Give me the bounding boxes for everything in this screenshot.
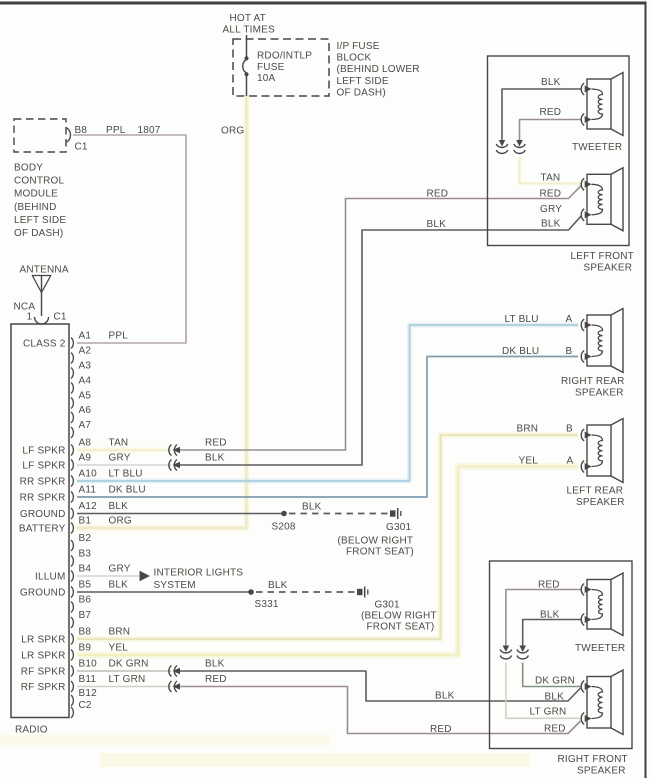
radio pin A9 bracket: [71, 460, 73, 471]
wire GRY (B4 to interior lights system): [77, 575, 139, 577]
svg-text:B: B: [566, 346, 573, 357]
left front speaker enclosure box: [488, 56, 630, 246]
svg-text:BLK: BLK: [302, 502, 322, 513]
svg-text:B6: B6: [79, 595, 92, 606]
radio pin C2 bracket: [71, 707, 73, 718]
svg-text:A11: A11: [79, 485, 97, 496]
svg-text:LEFT SIDE: LEFT SIDE: [337, 76, 389, 87]
wire RED (connector to RF woofer -): [176, 687, 581, 734]
splice S208: [281, 511, 287, 517]
radio pin B7 bracket: [71, 617, 73, 628]
wire BLK (LF tweeter + lead): [502, 89, 581, 141]
svg-text:A4: A4: [79, 376, 92, 387]
svg-text:GROUND: GROUND: [20, 588, 66, 599]
svg-text:LF SPKR: LF SPKR: [22, 446, 65, 457]
svg-text:RR SPKR: RR SPKR: [20, 493, 66, 504]
svg-text:B11: B11: [79, 674, 97, 685]
radio pin A5 bracket: [71, 398, 73, 409]
svg-text:RED: RED: [430, 724, 452, 735]
svg-text:BODY: BODY: [14, 163, 43, 174]
wire ORG (fuse to radio B1): [77, 96, 247, 528]
svg-text:RED: RED: [544, 724, 566, 735]
svg-text:SPEAKER: SPEAKER: [584, 263, 633, 274]
radio pin B11 bracket: [71, 681, 73, 692]
svg-text:RF SPKR: RF SPKR: [21, 682, 66, 693]
svg-text:BLK: BLK: [268, 580, 288, 591]
wire DK BLU (A11 to right rear speaker B): [77, 357, 578, 498]
wire DK GRN stub (B10 to connector): [77, 670, 171, 672]
wire BLK (A12 to splice S208): [77, 513, 284, 515]
inline connector at A8: [169, 445, 172, 456]
right front speaker enclosure box: [490, 561, 633, 749]
svg-text:BATTERY: BATTERY: [19, 524, 66, 535]
svg-text:B3: B3: [79, 549, 92, 560]
wire LT GRN (connector to RF woofer -): [506, 663, 581, 719]
speaker RF tweeter: [581, 573, 623, 636]
wire BLK (RF tweeter - lead): [523, 620, 581, 647]
radio pin B12 bracket: [71, 695, 73, 706]
svg-text:TAN: TAN: [109, 438, 129, 449]
svg-text:A7: A7: [79, 420, 92, 431]
svg-text:B4: B4: [79, 564, 92, 575]
radio pin B1 bracket: [71, 523, 73, 534]
svg-text:BLK: BLK: [205, 659, 225, 670]
radio pin A12 bracket: [71, 508, 73, 519]
svg-text:BLK: BLK: [435, 691, 455, 702]
scan artifact pale bands: [0, 735, 330, 745]
svg-text:SYSTEM: SYSTEM: [154, 580, 196, 591]
svg-text:A9: A9: [79, 453, 92, 464]
svg-text:FUSE: FUSE: [257, 62, 285, 73]
svg-text:ORG: ORG: [221, 126, 244, 137]
svg-text:TAN: TAN: [541, 173, 561, 184]
svg-text:A8: A8: [79, 438, 92, 449]
svg-text:OF DASH): OF DASH): [337, 87, 386, 98]
inline connector (RF tweeter BLK lead): [519, 646, 526, 653]
wire YEL halo: [77, 467, 578, 656]
wire BLK dashed (S208 to G301): [289, 513, 389, 515]
svg-text:BLK: BLK: [109, 580, 129, 591]
svg-text:CONTROL: CONTROL: [14, 176, 65, 187]
svg-text:ORG: ORG: [109, 516, 132, 527]
radio pin B6 bracket: [71, 602, 73, 613]
wire GRY stub (A9 to connector): [77, 464, 171, 466]
svg-text:RR SPKR: RR SPKR: [20, 477, 66, 488]
svg-text:A6: A6: [79, 405, 92, 416]
inline connector (LF tweeter BLK lead): [499, 140, 506, 147]
wire BLK (B5 to splice S331): [77, 591, 251, 593]
svg-text:GRY: GRY: [109, 453, 131, 464]
svg-text:OF DASH): OF DASH): [14, 228, 63, 239]
svg-text:DK BLU: DK BLU: [502, 346, 539, 357]
radio pin A4 bracket: [71, 383, 73, 394]
svg-text:BLK: BLK: [427, 219, 447, 230]
radio pin B4 bracket: [71, 571, 73, 582]
wire TAN halo: [520, 157, 582, 184]
svg-text:B12: B12: [79, 688, 98, 699]
svg-text:RED: RED: [205, 438, 227, 449]
wire BRN (B8 to left rear speaker B): [77, 435, 578, 639]
svg-text:(BEHIND LOWER: (BEHIND LOWER: [337, 64, 420, 75]
wire BRN halo: [77, 435, 578, 639]
wire BLK (connector to RF woofer +): [176, 671, 581, 701]
svg-text:A: A: [566, 314, 573, 325]
svg-text:TWEETER: TWEETER: [575, 643, 625, 654]
radio pin A10 bracket: [71, 476, 73, 487]
wire ORG halo: [77, 96, 247, 528]
ground G301 second (below right front seat): [357, 589, 363, 595]
radio pin B5 bracket: [71, 587, 73, 598]
speaker right rear: [581, 309, 623, 373]
svg-text:PPL: PPL: [109, 331, 129, 342]
svg-text:B: B: [566, 424, 573, 435]
svg-text:RF SPKR: RF SPKR: [21, 667, 66, 678]
svg-text:G301: G301: [386, 522, 412, 533]
radio pin B9 bracket: [71, 650, 73, 661]
antenna connector arc: [35, 317, 49, 324]
radio pin B3 bracket: [71, 556, 73, 567]
svg-text:10A: 10A: [257, 73, 276, 84]
svg-text:GRY: GRY: [109, 564, 131, 575]
svg-text:B5: B5: [79, 580, 92, 591]
arrow to interior lights system: [140, 571, 151, 582]
svg-text:1: 1: [27, 312, 33, 323]
svg-text:G301: G301: [375, 600, 401, 611]
svg-text:A3: A3: [79, 361, 92, 372]
svg-text:GROUND: GROUND: [20, 509, 66, 520]
wire BLK dashed (S331 to G301): [256, 591, 356, 593]
radio pin B8 bracket: [71, 634, 73, 645]
svg-text:LT BLU: LT BLU: [109, 469, 143, 480]
svg-text:GRY: GRY: [540, 204, 562, 215]
wire TAN stub (A8 to connector): [77, 449, 171, 451]
svg-text:B2: B2: [79, 533, 92, 544]
inline connector at A9: [169, 460, 172, 471]
inline connector (RF tweeter RED lead): [503, 646, 510, 653]
inline connector (LF tweeter RED lead): [516, 140, 523, 147]
svg-text:RED: RED: [427, 189, 449, 200]
radio pin B10 bracket: [71, 666, 73, 677]
svg-text:A12: A12: [79, 501, 98, 512]
svg-text:ILLUM: ILLUM: [35, 572, 65, 583]
wire LT BLU (A10 to right rear speaker A): [77, 325, 578, 481]
svg-text:RDO/INTLP: RDO/INTLP: [257, 51, 312, 62]
svg-text:RADIO: RADIO: [15, 725, 48, 736]
svg-text:RED: RED: [538, 580, 560, 591]
wire RED (connector to LF woofer +): [176, 186, 581, 450]
radio unit box: [11, 324, 69, 718]
svg-text:FRONT SEAT): FRONT SEAT): [346, 547, 414, 558]
speaker LF tweeter: [581, 73, 623, 136]
svg-text:A10: A10: [79, 469, 98, 480]
svg-text:CLASS 2: CLASS 2: [23, 339, 66, 350]
svg-text:A5: A5: [79, 391, 92, 402]
svg-text:SPEAKER: SPEAKER: [575, 388, 624, 399]
svg-text:LEFT REAR: LEFT REAR: [567, 486, 624, 497]
wire LT GRN stub (B11 to connector): [77, 686, 171, 688]
radio pin A6 bracket: [71, 412, 73, 423]
wire TAN (connector to LF woofer +): [520, 157, 582, 184]
svg-text:B1: B1: [79, 516, 92, 527]
svg-text:A1: A1: [79, 331, 92, 342]
svg-text:C1: C1: [75, 142, 88, 153]
svg-text:BLK: BLK: [541, 77, 561, 88]
svg-text:S208: S208: [272, 522, 296, 533]
svg-text:YEL: YEL: [519, 456, 539, 467]
svg-text:I/P FUSE: I/P FUSE: [337, 41, 380, 52]
wire DK GRN (connector to RF woofer +): [523, 663, 581, 687]
BCM connector C1 bracket: [66, 128, 70, 143]
radio pin A3 bracket: [71, 368, 73, 379]
radio pin A7 bracket: [71, 427, 73, 438]
page border right: [645, 2, 647, 778]
speaker left rear: [581, 419, 623, 483]
svg-text:LR SPKR: LR SPKR: [21, 651, 65, 662]
svg-text:(BELOW RIGHT: (BELOW RIGHT: [338, 536, 414, 547]
svg-text:DK BLU: DK BLU: [109, 485, 146, 496]
svg-text:A: A: [567, 456, 574, 467]
svg-text:LT BLU: LT BLU: [505, 314, 539, 325]
fuse RDO/INTLP 10A: [246, 35, 248, 57]
svg-text:B10: B10: [79, 659, 98, 670]
radio pin A2 bracket: [71, 353, 73, 364]
svg-text:C2: C2: [79, 700, 92, 711]
radio pin A11 bracket: [71, 492, 73, 503]
svg-text:INTERIOR LIGHTS: INTERIOR LIGHTS: [154, 568, 244, 579]
svg-text:BRN: BRN: [109, 627, 131, 638]
svg-text:A2: A2: [79, 346, 92, 357]
svg-text:B8: B8: [79, 627, 92, 638]
svg-text:ANTENNA: ANTENNA: [20, 265, 69, 276]
svg-text:BLK: BLK: [205, 453, 225, 464]
svg-text:LR SPKR: LR SPKR: [21, 635, 65, 646]
svg-text:TWEETER: TWEETER: [572, 142, 622, 153]
svg-text:BLK: BLK: [541, 219, 561, 230]
svg-text:DK GRN: DK GRN: [535, 676, 575, 687]
svg-text:SPEAKER: SPEAKER: [576, 497, 625, 508]
inline connector at B10: [169, 666, 172, 677]
svg-text:(BEHIND: (BEHIND: [14, 202, 57, 213]
svg-text:RED: RED: [205, 674, 227, 685]
svg-text:RED: RED: [540, 107, 562, 118]
svg-text:SPEAKER: SPEAKER: [577, 766, 626, 777]
antenna symbol: [32, 276, 51, 293]
svg-text:BLK: BLK: [540, 610, 560, 621]
svg-text:BRN: BRN: [517, 424, 539, 435]
inline connector at B11: [169, 681, 172, 692]
svg-text:LEFT SIDE: LEFT SIDE: [14, 215, 66, 226]
speaker LF woofer: [581, 168, 623, 231]
wire TAN stub A8 halo: [77, 448, 171, 453]
svg-text:RED: RED: [540, 189, 562, 200]
svg-text:RIGHT REAR: RIGHT REAR: [561, 376, 625, 387]
svg-text:C1: C1: [54, 312, 67, 323]
wire YEL (B9 to left rear speaker A): [77, 467, 578, 656]
body control module U-BCM (dashed box): [14, 119, 66, 152]
wire BLK (connector to LF woofer -): [176, 216, 581, 465]
radio pin A8 bracket: [71, 445, 73, 456]
svg-text:LT GRN: LT GRN: [530, 707, 567, 718]
wire RED (LF tweeter - lead): [520, 120, 582, 142]
svg-text:LT GRN: LT GRN: [109, 674, 146, 685]
svg-text:FRONT SEAT): FRONT SEAT): [367, 622, 435, 633]
svg-text:ALL TIMES: ALL TIMES: [223, 25, 276, 36]
page border top: [0, 2, 647, 5]
svg-text:BLOCK: BLOCK: [337, 53, 372, 64]
splice S331: [248, 589, 254, 595]
radio pin A1 bracket: [71, 338, 73, 349]
wire RED (RF tweeter + lead): [506, 590, 581, 647]
svg-text:(BELOW RIGHT: (BELOW RIGHT: [361, 611, 437, 622]
svg-text:RIGHT FRONT: RIGHT FRONT: [558, 754, 628, 765]
svg-text:BLK: BLK: [109, 501, 129, 512]
svg-text:B7: B7: [79, 610, 92, 621]
svg-text:BLK: BLK: [545, 692, 565, 703]
I/P fuse block box (dashed): [233, 39, 329, 96]
svg-text:LEFT FRONT: LEFT FRONT: [571, 251, 634, 262]
svg-text:LF SPKR: LF SPKR: [22, 461, 65, 472]
speaker RF woofer: [581, 670, 623, 735]
svg-text:MODULE: MODULE: [14, 189, 58, 200]
svg-text:DK GRN: DK GRN: [109, 659, 149, 670]
svg-text:S331: S331: [255, 599, 279, 610]
wire PPL (BCM B8 to radio A1): [73, 135, 186, 343]
wire LT BLU halo: [77, 325, 578, 481]
radio pin B2 bracket: [71, 540, 73, 551]
ground G301 (below right front seat): [390, 510, 396, 516]
svg-text:HOT AT: HOT AT: [230, 13, 266, 24]
